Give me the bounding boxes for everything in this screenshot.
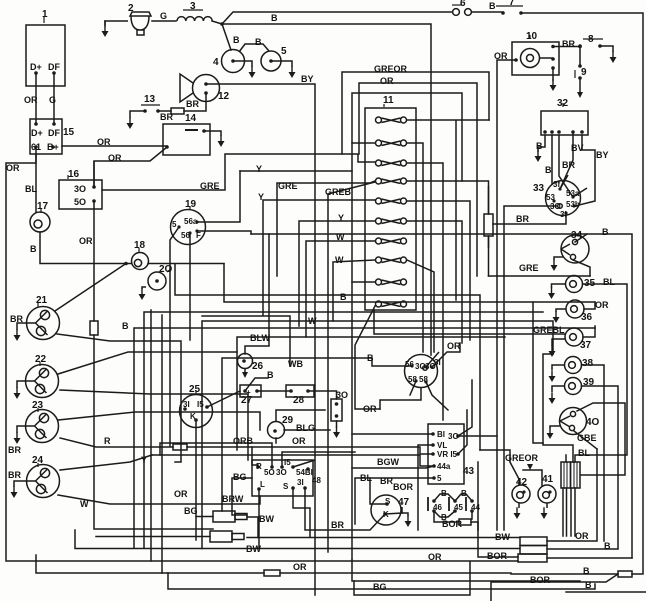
svg-text:BR: BR	[8, 445, 21, 455]
wire block lines left	[478, 462, 518, 557]
svg-text:OR: OR	[575, 531, 589, 541]
svg-text:BR: BR	[160, 112, 173, 122]
wire fuse row1 right out	[407, 120, 489, 300]
svg-text:BW: BW	[495, 532, 510, 542]
wire 31 OR up right	[432, 343, 460, 367]
svg-text:OR: OR	[292, 436, 306, 446]
lamp 35	[552, 276, 583, 293]
svg-text:BRW: BRW	[222, 494, 244, 504]
wire lamp22 top diag	[58, 352, 237, 374]
bundle line b4	[134, 328, 595, 548]
svg-text:3I: 3I	[297, 478, 304, 487]
relay 16	[59, 175, 102, 209]
wire staircase Y1 to row2	[240, 170, 352, 172]
wire ign 3I down	[305, 488, 385, 530]
svg-text:BOR: BOR	[442, 519, 463, 529]
wire block lines right	[547, 449, 632, 558]
svg-text:BW: BW	[259, 514, 274, 524]
wire 17 to node B	[40, 232, 224, 264]
svg-text:3O: 3O	[336, 390, 348, 400]
svg-text:W: W	[308, 316, 317, 326]
fuse 27	[240, 385, 261, 397]
fuse 28	[286, 385, 314, 397]
svg-text:OR: OR	[97, 137, 111, 147]
svg-text:BG: BG	[373, 582, 387, 592]
instrument 10	[512, 35, 559, 75]
battery 14	[163, 124, 221, 155]
wire BRW connector	[196, 517, 258, 538]
ignition switch block	[252, 460, 315, 496]
svg-text:B: B	[536, 141, 543, 151]
svg-text:G: G	[49, 95, 56, 105]
headlamp 22	[17, 362, 59, 398]
wire 35 gnd	[548, 288, 555, 299]
wire 38 39 40 box	[543, 354, 573, 462]
svg-text:W: W	[80, 499, 89, 509]
svg-text:OR: OR	[79, 236, 93, 246]
svg-text:I5: I5	[197, 400, 204, 409]
inline resistor OR bottom	[264, 570, 280, 576]
fuse box 11	[365, 104, 416, 310]
svg-text:9: 9	[581, 67, 587, 78]
bundle line b1	[175, 264, 480, 450]
svg-text:53a: 53a	[566, 189, 580, 198]
svg-text:34: 34	[571, 230, 583, 241]
node dot	[124, 262, 128, 266]
svg-text:23: 23	[32, 400, 44, 411]
wire GREOR loop top	[342, 72, 489, 154]
svg-text:BL: BL	[360, 473, 372, 483]
wire 43 15 right	[458, 410, 467, 454]
wire 32 B gnd	[535, 135, 546, 162]
svg-text:3f: 3f	[553, 180, 560, 189]
svg-text:DF: DF	[48, 128, 60, 138]
wire right verticals lower	[497, 276, 504, 530]
svg-text:28: 28	[293, 395, 305, 406]
svg-text:WB: WB	[288, 359, 303, 369]
svg-text:12: 12	[218, 91, 230, 102]
svg-text:B: B	[602, 227, 609, 237]
svg-text:G: G	[160, 11, 167, 21]
svg-text:BR: BR	[562, 160, 575, 170]
wire W2 to row8	[333, 260, 434, 352]
wire 19 56 down	[189, 233, 191, 340]
wire 31 to ign	[380, 388, 421, 409]
fuse 44	[466, 497, 474, 513]
svg-text:W: W	[335, 255, 344, 265]
starter connector 47	[371, 495, 408, 525]
wire 16 3O up	[93, 162, 95, 187]
svg-text:GREB: GREB	[325, 187, 352, 197]
wire 36 box	[533, 302, 543, 443]
warning light 4	[222, 50, 253, 73]
svg-text:56: 56	[181, 231, 190, 240]
wire 43 5 BL	[355, 478, 434, 524]
svg-text:K: K	[190, 412, 196, 421]
svg-text:B+: B+	[47, 142, 59, 152]
svg-text:54BI: 54BI	[296, 468, 313, 477]
cable connector a	[213, 511, 247, 522]
wire Y mid	[152, 455, 434, 466]
wire 34 gnd	[551, 260, 558, 271]
svg-text:32: 32	[557, 98, 569, 109]
connector block bottom-middle	[518, 537, 547, 562]
fuse 45	[449, 497, 457, 513]
svg-text:39: 39	[583, 377, 595, 388]
svg-text:61: 61	[31, 142, 41, 152]
svg-text:OR: OR	[174, 489, 188, 499]
svg-text:OR: OR	[494, 51, 508, 61]
svg-text:BL: BL	[603, 277, 615, 287]
svg-text:33: 33	[533, 183, 545, 194]
wire junction to lamp 4	[222, 24, 231, 50]
svg-text:BR: BR	[380, 476, 393, 486]
lamp 41	[538, 485, 556, 508]
wire regulator 61 to left border down and bottom	[6, 147, 518, 561]
wire 10 BR to 8 and 9	[553, 47, 580, 67]
svg-text:BLG: BLG	[296, 423, 315, 433]
inline resistor B bottom right	[618, 571, 632, 577]
bundle line b6	[237, 337, 505, 450]
wire WB	[202, 316, 290, 366]
lamp 37	[552, 328, 583, 346]
wire battery plus to 16	[94, 147, 167, 187]
svg-text:6: 6	[460, 0, 466, 9]
wire 44 45 46 bottoms	[434, 511, 472, 522]
svg-text:58: 58	[419, 375, 428, 384]
wire 34 GRE hook	[573, 260, 590, 276]
svg-text:W: W	[336, 232, 345, 242]
wire horn 12 BY down long	[206, 84, 315, 595]
wire 31 58 down	[410, 381, 448, 410]
light switch 31	[405, 352, 440, 388]
svg-text:D+: D+	[31, 128, 43, 138]
wire BOR bottom	[352, 560, 646, 592]
headlamp 24	[14, 463, 60, 498]
wire ign L down	[258, 489, 260, 549]
wire W1 to row7	[306, 241, 375, 337]
inline resistor BOR small	[459, 519, 471, 525]
wire connector b lines	[96, 537, 520, 538]
wire 26 gnd arrow	[242, 372, 248, 378]
svg-text:OR: OR	[293, 562, 307, 572]
svg-text:BG: BG	[184, 506, 198, 516]
svg-text:I5: I5	[284, 458, 291, 467]
wire 32 to 33	[552, 132, 595, 206]
svg-text:GRE: GRE	[519, 263, 539, 273]
svg-text:B: B	[367, 353, 374, 363]
svg-text:B: B	[585, 580, 592, 590]
wire 29 BLG	[276, 410, 330, 443]
svg-text:VL: VL	[437, 441, 447, 450]
wire 31 B left	[222, 358, 412, 511]
wire staircase Y2 to row5	[263, 200, 375, 315]
svg-text:18: 18	[134, 240, 146, 251]
svg-text:+: +	[246, 388, 251, 397]
capacitor 30	[331, 399, 342, 421]
wire 37 GREBL left	[374, 310, 565, 334]
svg-text:13: 13	[144, 94, 156, 105]
svg-text:5: 5	[437, 474, 442, 483]
sender 20	[142, 269, 171, 290]
svg-text:S: S	[385, 497, 391, 506]
svg-text:42: 42	[516, 477, 528, 488]
wire BG bottom	[168, 573, 595, 589]
wire Y3 to row6	[299, 221, 375, 326]
svg-text:3I: 3I	[434, 358, 441, 367]
svg-text:2: 2	[128, 3, 134, 14]
svg-text:44: 44	[471, 503, 480, 512]
fuse 46	[428, 497, 436, 513]
wire 19 F right B line	[198, 231, 251, 234]
svg-text:11: 11	[383, 95, 394, 106]
svg-text:3O: 3O	[74, 184, 86, 194]
bundle line b3	[144, 312, 543, 548]
svg-text:DF: DF	[48, 62, 60, 72]
wire lamp24 low diag W	[58, 455, 260, 504]
flasher unit 25	[180, 390, 213, 428]
svg-text:BL: BL	[25, 184, 37, 194]
svg-text:56a: 56a	[184, 217, 198, 226]
svg-text:3: 3	[190, 1, 196, 12]
svg-text:BOR: BOR	[393, 482, 414, 492]
svg-text:BGW: BGW	[377, 457, 400, 467]
wire 20 gnd	[139, 289, 146, 300]
svg-text:16: 16	[68, 169, 80, 180]
wire 40 GBE down	[574, 431, 597, 449]
wire right edge to resistor B	[491, 574, 618, 601]
wire lamp22 low diag	[60, 390, 248, 460]
lamp 39	[552, 378, 582, 395]
svg-text:3I: 3I	[560, 210, 567, 219]
wire 8 gnd	[610, 52, 617, 63]
switch 8	[578, 39, 613, 52]
svg-text:36: 36	[581, 312, 593, 323]
svg-text:58: 58	[408, 375, 417, 384]
svg-text:B: B	[489, 1, 496, 11]
wire OR bottom	[36, 555, 511, 573]
gauge 26	[238, 354, 253, 375]
svg-text:44a: 44a	[437, 462, 451, 471]
wire OR to 3O ign	[282, 306, 380, 467]
fuse links twin block	[561, 462, 580, 488]
wire node diag to lamp21	[55, 264, 126, 312]
wire lamp21 low diag	[57, 334, 181, 462]
wire regulator B+ to battery plus	[62, 145, 167, 147]
svg-text:4: 4	[213, 57, 219, 68]
wire lamp23 gnd	[14, 433, 21, 444]
svg-text:B: B	[271, 13, 278, 23]
svg-text:Y: Y	[338, 213, 344, 223]
svg-text:GREBL: GREBL	[533, 325, 565, 335]
svg-text:BY: BY	[301, 74, 314, 84]
svg-text:35: 35	[584, 278, 596, 289]
svg-text:53b: 53b	[566, 200, 580, 209]
svg-text:L: L	[260, 480, 265, 489]
svg-text:ORB: ORB	[233, 436, 254, 446]
horn 12	[180, 74, 220, 102]
svg-text:OR: OR	[428, 552, 442, 562]
svg-text:VR I5: VR I5	[437, 450, 458, 459]
wire gen D+ to regulator	[35, 73, 37, 124]
gauge 29	[268, 422, 285, 439]
wire lamp24 gnd	[11, 487, 18, 498]
resistor BR	[171, 108, 184, 114]
svg-text:5O: 5O	[264, 468, 275, 477]
svg-text:R: R	[256, 462, 262, 471]
svg-text:D+: D+	[30, 62, 42, 72]
wire B line 234	[251, 234, 632, 558]
svg-text:GREOR: GREOR	[374, 64, 408, 74]
wire 10 OR left down	[497, 60, 516, 276]
wire 47 gnd	[405, 516, 412, 527]
svg-text:F: F	[196, 231, 201, 240]
svg-text:21: 21	[36, 295, 48, 306]
wire 19 5 left down	[170, 227, 179, 446]
svg-text:5: 5	[281, 46, 287, 57]
wire ign BG left	[232, 478, 252, 515]
svg-text:5: 5	[172, 220, 177, 229]
wire 13 gnd	[127, 118, 134, 129]
svg-text:K: K	[383, 510, 389, 519]
wire 25 K down	[195, 420, 197, 540]
wire GRE long line	[489, 275, 591, 277]
svg-text:BL: BL	[578, 448, 590, 458]
wire 40 gnd	[547, 428, 554, 439]
svg-text:BR: BR	[562, 39, 575, 49]
svg-text:3I: 3I	[183, 400, 190, 409]
svg-text:BR: BR	[516, 214, 529, 224]
wire gen DF to regulator	[53, 73, 55, 124]
svg-text:15: 15	[63, 127, 75, 138]
generator 1	[26, 17, 65, 86]
wire bottom b2	[354, 562, 470, 595]
wire top B line after 6 to 7 to right edge	[472, 12, 643, 574]
wire 43 VL down	[418, 445, 433, 530]
svg-text:5O: 5O	[74, 197, 86, 207]
wire staircase GRE to row3	[102, 154, 375, 190]
svg-text:GREOR: GREOR	[505, 453, 539, 463]
svg-text:2O: 2O	[159, 264, 173, 275]
lamp 36	[556, 300, 584, 318]
wire 27 28 30	[308, 391, 337, 399]
wire fuse row2 right out	[407, 143, 423, 352]
svg-text:3O: 3O	[448, 432, 459, 441]
svg-text:OR: OR	[108, 153, 122, 163]
svg-text:B: B	[233, 35, 240, 45]
svg-text:41: 41	[542, 474, 554, 485]
sender 18	[132, 248, 149, 270]
svg-text:24: 24	[32, 455, 44, 466]
svg-text:GRE: GRE	[200, 181, 220, 191]
wire fuse holder top	[407, 181, 489, 214]
wire lamp23 low R to relay	[60, 438, 433, 454]
wire fuse holder bottom	[488, 236, 490, 276]
warning light 5	[239, 44, 292, 71]
svg-text:BY: BY	[596, 150, 609, 160]
svg-text:B: B	[267, 370, 274, 380]
svg-text:B: B	[461, 489, 467, 498]
relay 43	[428, 424, 464, 484]
cable connector b	[210, 531, 244, 542]
wire 30 gnd	[333, 421, 340, 438]
svg-text:47: 47	[398, 497, 410, 508]
wire BW lower	[75, 530, 520, 549]
wire regulator DF down to 17	[35, 154, 37, 212]
wire W long 321	[202, 321, 553, 549]
wire fuel pump 2 gnd	[102, 21, 109, 37]
lamp 42	[512, 485, 530, 508]
svg-text:B: B	[441, 489, 447, 498]
wire 35 BL right down	[580, 284, 627, 455]
wiper switch 33	[546, 175, 588, 216]
wire BOR resistor right	[471, 522, 478, 530]
wire left verticals down	[151, 310, 162, 573]
wire OR loop top	[359, 83, 477, 276]
wire 37 gnd	[549, 346, 556, 357]
svg-text:BW: BW	[246, 544, 261, 554]
svg-text:B: B	[122, 321, 129, 331]
turn switch 34	[554, 235, 589, 263]
connector 6	[452, 5, 471, 15]
wire lamp21 gnd arrow	[14, 330, 21, 341]
svg-text:29: 29	[282, 415, 294, 426]
wire 25 to 27	[207, 378, 291, 407]
wire fuse row2 left in	[352, 142, 375, 144]
svg-text:45: 45	[454, 503, 463, 512]
wire 36 gnd	[553, 312, 560, 323]
svg-text:GRE: GRE	[278, 181, 298, 191]
svg-text:26: 26	[252, 361, 264, 372]
headlamp 21	[17, 303, 60, 340]
wire 47 S wire	[370, 478, 387, 504]
wire 16 5O down long	[94, 202, 213, 529]
wire 36 OR right down	[584, 302, 595, 309]
svg-text:BR: BR	[8, 470, 21, 480]
oil pressure sender 17	[30, 209, 50, 232]
svg-text:38: 38	[582, 358, 594, 369]
wire 37 right loop	[583, 326, 595, 337]
svg-text:4O: 4O	[586, 417, 600, 428]
svg-text:OR: OR	[6, 163, 20, 173]
switch 13	[130, 105, 160, 118]
wire 42 gnd	[514, 508, 521, 519]
lamp 38	[552, 357, 582, 374]
wire fuse row6 right out	[407, 221, 462, 343]
svg-text:3O: 3O	[276, 468, 287, 477]
wire fuse row5 right out	[407, 201, 470, 340]
svg-text:B: B	[255, 37, 262, 47]
wire fuse row3 right out	[407, 163, 443, 420]
wire 33 3I down BR	[493, 213, 566, 224]
svg-text:1: 1	[42, 9, 48, 20]
wire ORB	[160, 443, 272, 467]
wire 43 3O right	[458, 380, 497, 436]
svg-text:17: 17	[37, 201, 49, 212]
wire R to ign	[252, 447, 258, 465]
svg-text:Y: Y	[258, 192, 264, 202]
wire 2 to coil	[152, 20, 176, 22]
wire loop3	[352, 93, 462, 560]
wire 4 gnd	[249, 67, 256, 78]
blower switch 40	[550, 408, 587, 435]
wire 33 3O left down	[504, 206, 557, 276]
wire 5 gnd	[289, 67, 296, 78]
svg-text:B: B	[340, 292, 347, 302]
svg-text:B: B	[604, 541, 611, 551]
wire 38 gnd	[582, 365, 605, 541]
svg-text:OR: OR	[447, 341, 461, 351]
